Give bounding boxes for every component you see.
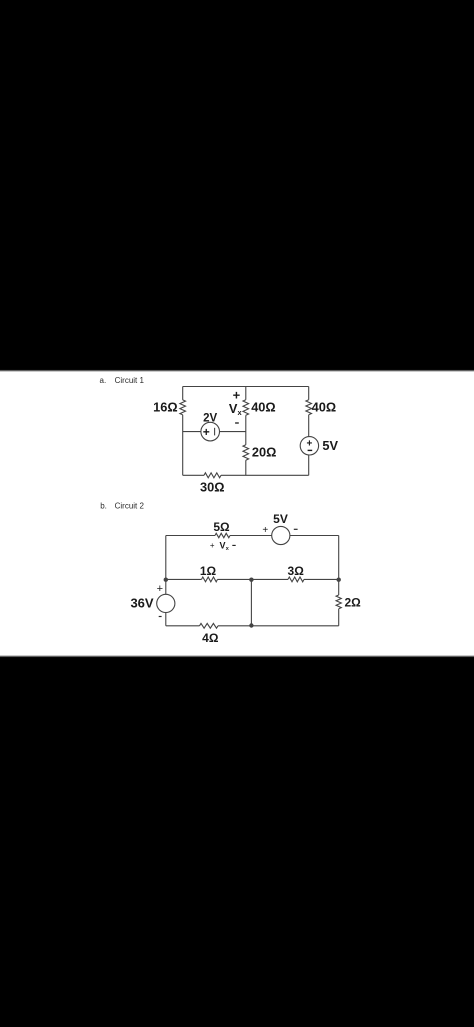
5V c2 minus xyxy=(294,528,298,530)
wire: c2 middle row mid xyxy=(218,578,289,580)
resistor 3ohm xyxy=(288,577,304,582)
svg-text:5Ω: 5Ω xyxy=(213,520,230,534)
wire: circuit1 bottom left xyxy=(183,474,204,476)
svg-text:Circuit 1: Circuit 1 xyxy=(115,376,145,385)
wire: c2 right lower xyxy=(338,609,340,626)
36V minus xyxy=(159,616,162,618)
svg-text:a.: a. xyxy=(100,376,107,385)
svg-text:+: + xyxy=(203,425,210,439)
resistor 40ohm right xyxy=(306,400,312,415)
svg-text:40Ω: 40Ω xyxy=(312,400,337,415)
resistor 16ohm xyxy=(180,400,186,415)
wire: circuit1 bottom right xyxy=(221,474,309,476)
svg-text:+: + xyxy=(210,541,215,550)
svg-text:2Ω: 2Ω xyxy=(345,596,362,610)
resistor 2ohm xyxy=(336,595,341,609)
svg-text:Circuit 2: Circuit 2 xyxy=(115,502,145,511)
svg-text:b.: b. xyxy=(100,502,107,511)
white content band xyxy=(0,372,474,655)
wire: c2 left upper xyxy=(165,536,167,595)
wire: circuit1 left upper lead xyxy=(182,387,184,400)
svg-text:20Ω: 20Ω xyxy=(252,445,277,460)
wire: c2 middle row right xyxy=(304,578,339,580)
wire: c2 center vertical xyxy=(250,579,252,625)
wire: right lower lead xyxy=(308,455,310,475)
svg-text:V: V xyxy=(220,540,226,550)
resistor 40ohm middle xyxy=(243,400,249,416)
svg-text:+: + xyxy=(306,438,312,449)
wire: c2 top mid segment xyxy=(230,535,272,537)
node dot left xyxy=(164,578,168,582)
wire: c2 bottom left xyxy=(166,625,200,627)
wire: circuit1 top xyxy=(183,386,309,388)
wire: right mid lead xyxy=(308,415,310,437)
wire: c2 top left segment xyxy=(166,535,215,537)
wire: mid branch between xyxy=(245,415,247,445)
svg-text:16Ω: 16Ω xyxy=(153,400,178,415)
source 2V circle xyxy=(201,422,220,441)
resistor 30ohm xyxy=(204,473,221,478)
wire: c2 bottom right xyxy=(218,625,339,627)
2V bar xyxy=(214,428,216,436)
svg-text:30Ω: 30Ω xyxy=(200,479,225,494)
node dot center xyxy=(249,578,253,582)
wire: circuit1 left lower xyxy=(182,415,184,476)
svg-text:5V: 5V xyxy=(273,512,288,526)
source 36V circle xyxy=(157,594,175,612)
svg-text:3Ω: 3Ω xyxy=(288,564,305,578)
resistor 20ohm xyxy=(243,445,249,460)
wire: c2 left lower xyxy=(165,613,167,626)
wire: 2V right lead xyxy=(220,431,246,433)
source 5V circle c2 xyxy=(272,526,290,544)
resistor 1ohm xyxy=(202,577,218,582)
svg-text:4Ω: 4Ω xyxy=(202,631,219,645)
source 5V circle c1 xyxy=(300,437,318,455)
wire: right upper lead xyxy=(308,387,310,400)
resistor 5ohm xyxy=(215,533,230,537)
wire: c2 right upper xyxy=(338,536,340,596)
wire: c2 middle row left xyxy=(166,578,202,580)
wire: mid branch top lead xyxy=(245,387,247,400)
svg-text:5V: 5V xyxy=(322,438,338,453)
node dot right xyxy=(337,578,341,582)
resistor 4ohm xyxy=(200,623,219,628)
wire: 2V left lead xyxy=(183,431,201,433)
svg-text:+: + xyxy=(262,525,268,536)
svg-text:1Ω: 1Ω xyxy=(200,564,217,578)
svg-text:2V: 2V xyxy=(203,412,217,424)
svg-text:36V: 36V xyxy=(130,595,153,610)
node dot bottom center xyxy=(249,623,253,627)
5V c1 minus xyxy=(308,449,313,451)
svg-text:40Ω: 40Ω xyxy=(251,400,276,415)
svg-text:+: + xyxy=(157,583,163,595)
wire: mid branch bottom lead xyxy=(245,460,247,475)
wire: c2 top right segment xyxy=(290,535,339,537)
label minus of Vx xyxy=(235,422,239,424)
